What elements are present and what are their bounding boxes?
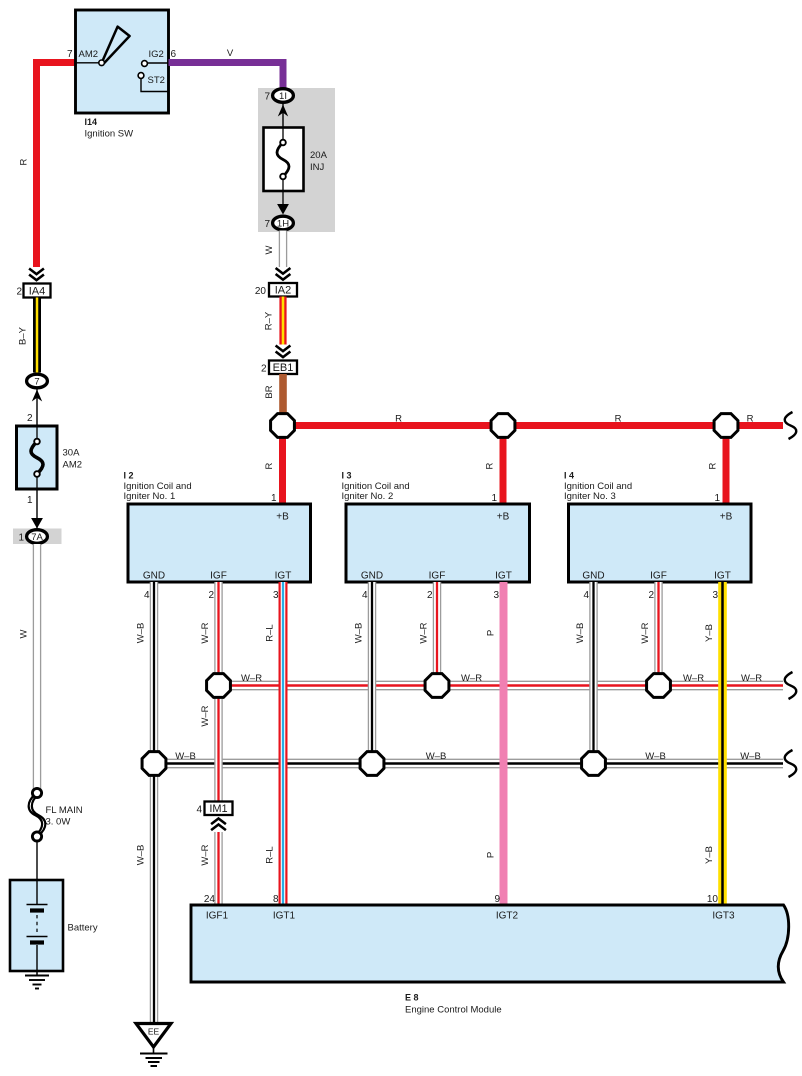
junction node (W-B bus) 3 — [582, 752, 606, 776]
svg-text:I14: I14 — [85, 117, 98, 127]
svg-text:Igniter No. 2: Igniter No. 2 — [342, 491, 394, 502]
svg-text:W–B: W–B — [575, 623, 586, 644]
svg-text:W–B: W–B — [426, 751, 447, 762]
svg-text:R: R — [615, 414, 622, 425]
svg-text:Igniter No. 1: Igniter No. 1 — [124, 491, 176, 502]
svg-text:+B: +B — [720, 512, 733, 523]
svg-text:W–R: W–R — [461, 673, 482, 684]
svg-text:R: R — [485, 462, 496, 469]
svg-text:3: 3 — [273, 590, 279, 601]
wire V from IG2 to fuse block — [169, 63, 284, 90]
ground symbol below battery — [36, 971, 38, 976]
svg-text:W–B: W–B — [354, 623, 365, 644]
junction node (W-B bus) 1 — [142, 752, 166, 776]
fuse block background (20A INJ) — [258, 88, 335, 232]
fusible link FL MAIN 3.0W — [29, 794, 43, 836]
wire W-R coil1 IGF to IM1 — [215, 582, 221, 801]
svg-text:IGT: IGT — [714, 571, 731, 582]
wire R drop to coil 1 +B — [279, 437, 286, 504]
ground symbol EE — [153, 1047, 155, 1054]
svg-text:I 3: I 3 — [342, 471, 352, 481]
wire R-L coil1 IGT to ECM pin 8 — [279, 582, 288, 905]
svg-text:9: 9 — [494, 894, 500, 905]
svg-text:Igniter No. 3: Igniter No. 3 — [564, 491, 616, 502]
svg-text:W–B: W–B — [175, 751, 196, 762]
svg-text:INJ: INJ — [310, 162, 325, 173]
svg-text:W–B: W–B — [136, 623, 147, 644]
wire from fusible link to battery — [36, 840, 38, 881]
svg-text:IGT3: IGT3 — [712, 911, 735, 922]
svg-text:1: 1 — [491, 493, 497, 504]
svg-text:W–R: W–R — [419, 622, 430, 643]
svg-text:IGT1: IGT1 — [273, 911, 296, 922]
svg-text:Y–B: Y–B — [704, 846, 715, 864]
svg-text:GND: GND — [361, 571, 383, 582]
svg-text:IGT: IGT — [495, 571, 512, 582]
svg-text:IG2: IG2 — [149, 49, 164, 60]
connector IA2 — [269, 283, 297, 297]
svg-text:2: 2 — [648, 590, 654, 601]
svg-text:7: 7 — [34, 376, 39, 387]
svg-text:R: R — [19, 158, 30, 165]
gray highlight behind connector 7A — [13, 529, 62, 545]
wire P coil2 IGT to ECM pin 9 — [500, 582, 508, 905]
svg-text:1: 1 — [271, 493, 277, 504]
wire W-B coil3 GND to W-B bus — [590, 582, 596, 764]
svg-text:4: 4 — [144, 590, 150, 601]
wire BR from EB1 to junction — [279, 374, 287, 414]
svg-text:IA4: IA4 — [29, 286, 46, 298]
break symbol right end of W-B bus — [786, 749, 799, 778]
junction node J3 (R bus) — [714, 414, 738, 438]
wire W-R bus (horizontal) — [219, 682, 784, 690]
svg-text:1I: 1I — [279, 91, 287, 102]
svg-text:ST2: ST2 — [148, 75, 165, 86]
svg-text:4: 4 — [196, 805, 202, 816]
svg-text:IGT2: IGT2 — [496, 911, 519, 922]
svg-text:2: 2 — [16, 287, 22, 298]
svg-text:Battery: Battery — [68, 923, 98, 934]
svg-text:R: R — [747, 414, 754, 425]
svg-text:EE: EE — [148, 1027, 160, 1037]
wire W-R coil3 IGF to W-R bus — [655, 582, 661, 686]
wire Y-B coil3 IGT to ECM pin 10 — [718, 582, 727, 905]
connector EB1 — [269, 361, 297, 375]
junction node (W-R bus) 2 — [425, 674, 449, 698]
ground EE triangle — [136, 1024, 171, 1048]
connector IM1 — [205, 802, 233, 816]
connector 1I — [273, 89, 294, 103]
svg-text:1H: 1H — [277, 218, 289, 229]
arrow up into 1I — [282, 104, 284, 128]
svg-text:AM2: AM2 — [63, 460, 83, 471]
svg-text:4: 4 — [362, 590, 368, 601]
arrow down into 1H — [277, 204, 289, 215]
svg-text:6: 6 — [171, 49, 177, 60]
svg-text:IM1: IM1 — [209, 803, 227, 815]
battery symbol — [36, 880, 38, 904]
svg-text:W–R: W–R — [640, 622, 651, 643]
svg-text:2: 2 — [208, 590, 214, 601]
svg-text:W–B: W–B — [136, 845, 147, 866]
svg-text:2: 2 — [27, 413, 33, 424]
svg-text:FL MAIN: FL MAIN — [46, 805, 83, 816]
connector IA4 — [24, 284, 51, 298]
svg-text:7: 7 — [67, 49, 73, 60]
svg-text:IGF: IGF — [210, 571, 227, 582]
key lever symbol — [103, 27, 130, 63]
engine control module E8 box — [191, 905, 789, 982]
arrow into IA4 — [29, 269, 44, 275]
wire W from 1H to IA2 — [280, 231, 286, 268]
svg-text:GND: GND — [582, 571, 604, 582]
svg-text:W–R: W–R — [241, 673, 262, 684]
svg-text:1: 1 — [714, 493, 720, 504]
svg-text:Engine Control Module: Engine Control Module — [405, 1005, 502, 1016]
svg-text:30A: 30A — [63, 448, 81, 459]
svg-text:2: 2 — [261, 364, 267, 375]
arrow up into junction 7 — [36, 388, 38, 426]
junction node (W-R bus) 1 — [207, 674, 231, 698]
svg-text:I 4: I 4 — [564, 471, 574, 481]
battery box — [10, 880, 63, 971]
wire W-R coil2 IGF to W-R bus — [434, 582, 440, 686]
arrow into EB1 — [276, 346, 291, 352]
svg-text:7A: 7A — [31, 532, 43, 543]
svg-text:3. 0W: 3. 0W — [46, 817, 71, 828]
svg-text:W–R: W–R — [683, 673, 704, 684]
svg-text:1: 1 — [27, 495, 33, 506]
svg-text:IA2: IA2 — [275, 285, 292, 297]
fuse 30A AM2 symbol — [31, 442, 43, 475]
wire R drop to coil 2 +B — [500, 437, 507, 504]
junction node J1 (R bus) — [271, 414, 295, 438]
svg-text:W–R: W–R — [741, 673, 762, 684]
svg-text:AM2: AM2 — [79, 49, 99, 60]
fuse 20A INJ symbol — [282, 128, 284, 141]
svg-text:Ignition SW: Ignition SW — [85, 129, 134, 140]
svg-text:EB1: EB1 — [273, 362, 294, 374]
break symbol right end of W-R bus — [786, 671, 799, 700]
svg-text:2: 2 — [427, 590, 433, 601]
fuse 20A INJ box — [264, 128, 304, 192]
svg-text:I 2: I 2 — [124, 471, 134, 481]
pin AM2 contact — [76, 62, 100, 64]
svg-text:W: W — [19, 629, 30, 638]
svg-text:R–L: R–L — [265, 846, 276, 863]
svg-text:R: R — [395, 414, 402, 425]
svg-text:W–R: W–R — [200, 622, 211, 643]
svg-text:3: 3 — [712, 590, 718, 601]
svg-text:W: W — [264, 245, 275, 254]
arrow into IA2 — [276, 268, 291, 274]
svg-text:4: 4 — [583, 590, 589, 601]
svg-text:IGT: IGT — [275, 571, 292, 582]
svg-text:R: R — [708, 462, 719, 469]
ignition coil I4 box — [569, 504, 752, 582]
svg-text:B–Y: B–Y — [18, 326, 29, 345]
svg-text:IGF1: IGF1 — [206, 911, 229, 922]
svg-text:R: R — [264, 462, 275, 469]
svg-text:7: 7 — [264, 92, 270, 103]
svg-text:E 8: E 8 — [405, 993, 419, 1003]
wire W-B coil2 GND to W-B bus — [369, 582, 375, 764]
fuse 30A AM2 box — [17, 426, 58, 489]
svg-text:W–R: W–R — [200, 705, 211, 726]
svg-text:P: P — [486, 630, 497, 636]
junction connector 7 — [27, 374, 48, 388]
junction node (W-R bus) 3 — [647, 674, 671, 698]
svg-text:P: P — [486, 852, 497, 858]
ignition switch I14 box — [76, 10, 169, 113]
svg-text:W–B: W–B — [740, 751, 761, 762]
wire B-Y from IA4 to junction 7 — [33, 298, 41, 373]
svg-text:W–R: W–R — [200, 844, 211, 865]
svg-text:20A: 20A — [310, 150, 328, 161]
wire R from ignition switch AM2 to connector IA4 — [37, 63, 76, 268]
junction node J2 (R bus) — [491, 414, 515, 438]
pin IG2 contact — [147, 62, 169, 64]
svg-text:20: 20 — [255, 286, 267, 297]
svg-text:1: 1 — [18, 533, 24, 544]
wire W-R from IM1 to ECM pin 24 — [215, 832, 221, 905]
svg-text:V: V — [227, 48, 234, 59]
svg-text:+B: +B — [497, 512, 510, 523]
svg-text:24: 24 — [204, 894, 216, 905]
svg-text:IGF: IGF — [429, 571, 446, 582]
pin ST2 contact — [141, 78, 169, 92]
wire W from 7A to fusible link — [34, 544, 40, 792]
wire red bus R (junction row to right edge) — [283, 422, 784, 429]
svg-text:8: 8 — [273, 894, 279, 905]
svg-text:Y–B: Y–B — [704, 624, 715, 642]
arrow down into connector 7A — [36, 489, 38, 528]
break symbol right end of R bus — [786, 411, 799, 440]
ignition coil I2 box — [128, 504, 311, 582]
wire W-B bus (horizontal) — [154, 760, 783, 768]
svg-text:10: 10 — [707, 894, 719, 905]
wire R-Y from IA2 to EB1 — [279, 297, 286, 345]
junction node (W-B bus) 2 — [360, 752, 384, 776]
svg-text:+B: +B — [276, 512, 289, 523]
wire R drop to coil 3 +B — [723, 437, 730, 504]
svg-text:BR: BR — [264, 385, 275, 398]
svg-text:R–Y: R–Y — [264, 311, 275, 330]
connector 1H — [273, 216, 294, 230]
arrow up out of IM1 — [211, 819, 226, 825]
svg-text:GND: GND — [143, 571, 165, 582]
svg-text:7: 7 — [264, 219, 270, 230]
svg-text:R–L: R–L — [265, 624, 276, 641]
svg-text:IGF: IGF — [650, 571, 667, 582]
svg-text:W–B: W–B — [645, 751, 666, 762]
wire W-B coil1 GND to EE ground — [151, 582, 157, 1022]
ignition coil I3 box — [346, 504, 530, 582]
connector 7A — [27, 530, 48, 544]
svg-text:3: 3 — [493, 590, 499, 601]
